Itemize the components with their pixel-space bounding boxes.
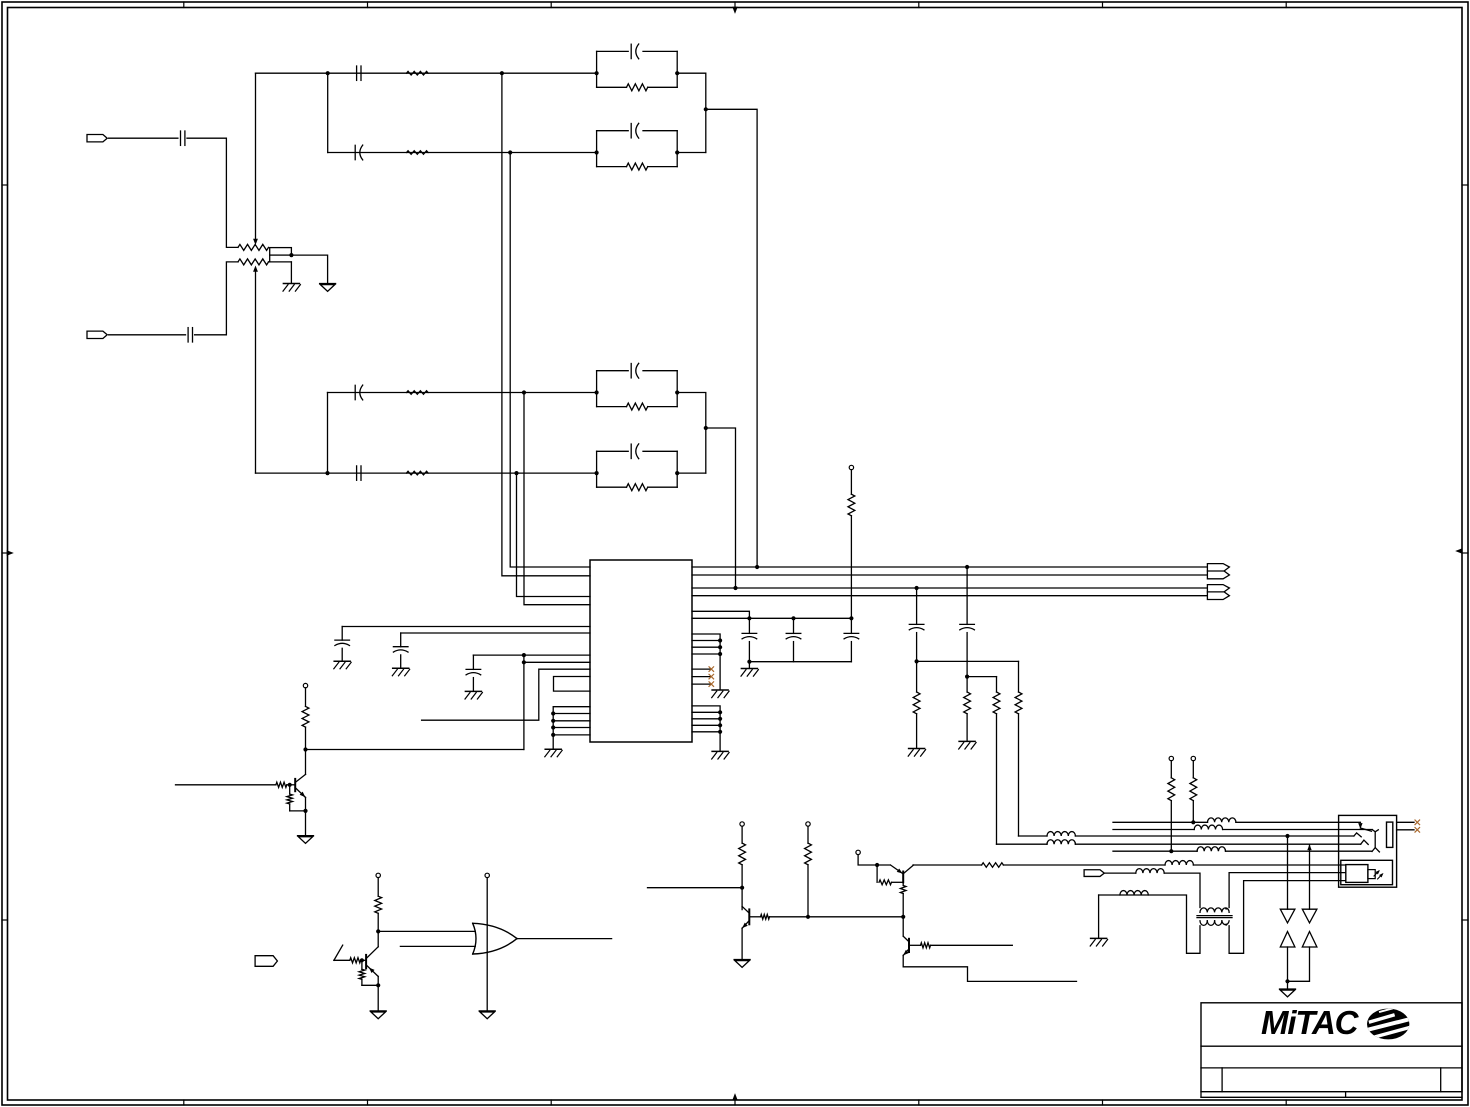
resistor R18 [350, 958, 361, 963]
junction dot [522, 653, 526, 657]
MITAC logo text [1261, 1004, 1360, 1041]
junction dot [551, 711, 555, 715]
power pin [740, 822, 744, 826]
resistor R20 [739, 843, 746, 865]
wire pin [692, 640, 720, 642]
polarity dot [1225, 924, 1227, 926]
wire net L1 [502, 73, 590, 576]
wire [749, 916, 760, 918]
wire net L4 [517, 473, 591, 596]
sheet centre arrow top [733, 7, 738, 13]
transformer T1 primary [1200, 908, 1229, 913]
power pin [485, 873, 489, 877]
junction dot [1169, 849, 1173, 853]
no-connect x [709, 674, 714, 679]
opto box [1341, 860, 1393, 884]
RC feedback block C frame [597, 371, 678, 407]
wire [677, 393, 706, 474]
no-connect x [1415, 820, 1420, 825]
transistor Q2 [366, 947, 378, 977]
wire [327, 393, 329, 474]
transformer T1 core [1197, 916, 1232, 918]
ground (signal) [1280, 989, 1296, 997]
junction dot [718, 645, 722, 649]
capacitor C7 [631, 44, 639, 59]
wire [1164, 873, 1200, 907]
opto body [1346, 865, 1368, 883]
potentiometer VR1a element [238, 244, 269, 250]
wire through gate [486, 878, 488, 1011]
resistor R8 [627, 484, 648, 491]
wire [1308, 845, 1312, 909]
ground (signal) [370, 1011, 386, 1019]
connector J5 (control input) [255, 956, 277, 967]
bus entry slash [334, 945, 343, 960]
wire [377, 976, 379, 1010]
capacitor C2 [188, 328, 192, 342]
resistor R9 [848, 494, 855, 516]
resistor R11 [964, 677, 971, 742]
wire gate input B [400, 945, 475, 947]
capacitor C14 [742, 618, 757, 661]
resistor R26 [921, 943, 931, 948]
wire nc stub [1397, 829, 1414, 831]
wire [552, 735, 554, 749]
wire [1223, 829, 1373, 831]
inductor L1 [1208, 818, 1236, 822]
junction dot [747, 660, 751, 664]
power pin [806, 822, 810, 826]
wire base net [176, 784, 276, 786]
capacitor C18 [960, 567, 975, 661]
wire pin [553, 707, 590, 735]
wire [850, 470, 852, 495]
inductor L3 [1047, 832, 1075, 836]
sheet centre arrow right [1456, 549, 1462, 554]
wire [287, 784, 295, 786]
wire pin [692, 724, 720, 726]
wire loop pins [554, 677, 591, 692]
resistor R17 [375, 896, 382, 913]
wire [648, 887, 743, 889]
junction dot [514, 471, 518, 475]
wire [109, 137, 178, 139]
ground (chassis) [741, 669, 758, 677]
ground (chassis) [392, 668, 409, 676]
wire row1 [256, 72, 597, 74]
wire [966, 661, 968, 676]
junction dot [1191, 820, 1195, 824]
junction dot [740, 886, 744, 890]
polarity dot [1225, 907, 1227, 909]
junction dot [1285, 834, 1289, 838]
diode D2 [1280, 932, 1295, 948]
wire [290, 810, 306, 812]
wire W5 [1113, 850, 1197, 852]
wire cap rail [692, 617, 851, 619]
wire [377, 913, 379, 947]
title block divider [1221, 1068, 1223, 1092]
wire out2 [692, 574, 1207, 576]
opto light arrows [1374, 871, 1383, 879]
wire [1170, 761, 1172, 778]
wire [290, 262, 292, 283]
headphone jack J7 body [1339, 815, 1397, 887]
junction dot [901, 915, 905, 919]
junction dot [806, 915, 810, 919]
resistor R25 [982, 863, 1004, 867]
title block divider [1440, 1068, 1442, 1092]
resistor R4 [407, 471, 429, 475]
power pin [856, 850, 860, 854]
junction dot [376, 929, 380, 933]
junction dot [326, 71, 330, 75]
power pin [1191, 756, 1195, 760]
diode D3 [1302, 909, 1317, 923]
wire pin [553, 720, 590, 722]
junction dot [289, 253, 293, 257]
wire pin [553, 734, 590, 736]
wire [1075, 835, 1354, 837]
wire [1236, 821, 1361, 823]
wire [741, 928, 743, 959]
wire out4 [692, 595, 1207, 597]
potentiometer body box [270, 248, 292, 256]
wire [1288, 947, 1310, 981]
wire pin [692, 718, 720, 720]
wire W1 [1113, 821, 1208, 823]
resistor R16 [287, 785, 293, 811]
junction dot [360, 958, 364, 962]
junction dot [875, 863, 879, 867]
junction dot [303, 809, 307, 813]
resistor R15 [276, 782, 287, 787]
junction dot [551, 725, 555, 729]
junction dot [718, 638, 722, 642]
junction dot [747, 616, 751, 620]
capacitor C3 [357, 66, 361, 80]
wire W6 [1003, 864, 1165, 866]
inductor L6 [1165, 861, 1193, 865]
junction dot [704, 107, 708, 111]
wire gate input A [378, 930, 475, 932]
wire [902, 882, 904, 885]
junction dot [288, 783, 292, 787]
jack switch Y [1372, 830, 1379, 852]
ground (chassis) [712, 751, 729, 759]
junction dot [965, 675, 969, 679]
resistor R23 [879, 880, 892, 885]
wire rail [917, 660, 1019, 662]
title block line [1201, 1045, 1462, 1047]
resistor R13 [993, 677, 1000, 845]
wire [1287, 836, 1289, 909]
wire [305, 688, 307, 707]
capacitor C5 [355, 385, 363, 400]
ground (signal) [298, 836, 314, 844]
junction dot [675, 71, 679, 75]
wire Q4 out [913, 864, 982, 866]
ground (chassis) [465, 691, 482, 699]
capacitor C15 [786, 618, 801, 661]
inductor L4 [1047, 840, 1075, 844]
wire out3 [692, 587, 1207, 589]
connector J2 (audio input 2) [87, 331, 107, 338]
wire net L2 [510, 153, 590, 568]
wire [195, 262, 238, 335]
junction dot [965, 565, 969, 569]
junction dot [595, 390, 599, 394]
sheet centre arrow left [7, 551, 13, 556]
wire [361, 959, 366, 961]
wire [1170, 801, 1172, 852]
junction dot [325, 471, 329, 475]
opto emitter notch [1368, 870, 1375, 879]
wire [748, 662, 750, 669]
wire [401, 632, 590, 634]
junction dot [551, 733, 555, 737]
op-amp / DAC IC U1 [590, 560, 692, 742]
wire [741, 826, 743, 843]
wire [892, 881, 904, 883]
wire [524, 661, 590, 663]
wire pin [692, 634, 720, 690]
junction dot [522, 660, 526, 664]
capacitor C16 [844, 618, 859, 661]
junction dot [755, 565, 759, 569]
junction dot [303, 747, 307, 751]
wire [342, 626, 590, 628]
wire W4 [997, 843, 1048, 845]
wire [858, 855, 890, 865]
wire pin [553, 713, 590, 715]
RC feedback block B frame [597, 131, 678, 167]
wire [677, 472, 706, 474]
wire [741, 865, 743, 910]
wire [187, 138, 238, 247]
resistor R7 [627, 403, 648, 410]
wire [967, 676, 996, 678]
ground (signal) [479, 1011, 495, 1019]
junction dot [376, 983, 380, 987]
junction dot [915, 659, 919, 663]
transistor Q1 [295, 774, 305, 797]
inductor L2 [1194, 825, 1222, 829]
RC feedback block D frame [597, 451, 678, 487]
wire bottom rail [749, 661, 851, 663]
connector J4 (output pair B) [1207, 585, 1229, 600]
wire [876, 865, 878, 882]
junction dot [508, 150, 512, 154]
wire T1 bottom-left [1099, 895, 1200, 953]
inductor L5 [1197, 847, 1225, 851]
power pin [303, 683, 307, 687]
wire [327, 73, 329, 152]
junction dot [704, 426, 708, 430]
wire [523, 655, 525, 749]
junction dot [675, 390, 679, 394]
capacitor C4 [355, 145, 363, 160]
power pin [1169, 756, 1173, 760]
jack tip contact [1359, 823, 1372, 831]
resistor R28 [1190, 778, 1197, 801]
wire [1098, 895, 1100, 938]
wire [850, 516, 852, 619]
junction dot [675, 150, 679, 154]
wire out1 [692, 566, 1207, 568]
resistor R14 [302, 706, 309, 727]
wire [1226, 850, 1373, 852]
ground (chassis) [545, 749, 562, 757]
wire [334, 959, 350, 961]
capacitor C6 [357, 466, 361, 480]
wire pin 611 [692, 611, 749, 618]
resistor R3 [407, 391, 429, 395]
ground (chassis) [1090, 938, 1107, 946]
ground (chassis) [959, 741, 976, 749]
wire nc pin [692, 668, 711, 670]
wire [1075, 843, 1360, 845]
junction dot [675, 471, 679, 475]
capacitor C11 [335, 627, 350, 662]
wire [109, 334, 186, 336]
junction dot [551, 719, 555, 723]
junction dot [718, 730, 722, 734]
wire [305, 727, 307, 774]
ground (chassis) [283, 284, 300, 292]
wire row3 [328, 392, 597, 394]
wire nc pin [692, 676, 711, 678]
wire T1 top-right [1229, 873, 1346, 908]
resistor R19 [359, 960, 365, 985]
connector J6 (mic input) [1084, 870, 1104, 877]
wire [902, 894, 904, 937]
wire [807, 826, 809, 843]
wire W2 [1113, 829, 1194, 831]
wire [291, 255, 327, 283]
wire net L3 [524, 393, 590, 605]
wire [269, 261, 292, 263]
resistor R10 [913, 661, 920, 748]
ground (signal) [320, 284, 336, 292]
capacitor C13 [466, 655, 481, 691]
jack contact chevron 1 [1354, 833, 1361, 837]
junction dot [733, 586, 737, 590]
junction dot [718, 717, 722, 721]
RC feedback block A frame [597, 51, 678, 87]
jack contact chevron 2 [1361, 840, 1369, 844]
junction dot [595, 150, 599, 154]
junction dot [522, 390, 526, 394]
wire [1192, 761, 1194, 778]
wiper wire upper [254, 73, 258, 244]
wire [770, 916, 904, 918]
junction dot [718, 710, 722, 714]
inductor L7 [1136, 869, 1164, 873]
MITAC logo globe [1366, 1009, 1409, 1040]
wire pin [692, 731, 720, 733]
wire pin [692, 653, 720, 655]
junction dot [718, 723, 722, 727]
wire net to Q1 [306, 749, 524, 751]
wire [362, 984, 378, 986]
ground (chassis) [712, 690, 729, 698]
wire nc pin [692, 683, 711, 685]
capacitor C10 [631, 444, 639, 459]
wire [807, 865, 809, 917]
sheet centre arrow bottom [733, 1094, 738, 1100]
wire nc stub [1397, 821, 1414, 823]
diode D1 [1280, 909, 1295, 923]
wire [677, 73, 706, 152]
power pin [849, 465, 853, 469]
capacitor C9 [631, 363, 639, 378]
junction dot [500, 71, 504, 75]
junction dot [791, 616, 795, 620]
junction dot [595, 471, 599, 475]
resistor R12 [1015, 661, 1022, 836]
wire [1193, 864, 1345, 866]
wire [903, 955, 1076, 981]
wire T1 bottom-right [1229, 881, 1346, 954]
wire row4 [256, 472, 597, 474]
wire gate output [517, 938, 612, 940]
capacitor C17 [909, 588, 924, 661]
wire [909, 944, 921, 946]
wire pin [692, 711, 720, 713]
jack sleeve [1387, 822, 1393, 847]
wire [1287, 947, 1289, 989]
transistor Q3 [742, 906, 749, 928]
wire [677, 152, 706, 154]
resistor R5 [627, 84, 648, 91]
wire pin [692, 646, 720, 648]
wire pin [553, 727, 590, 729]
title block bottom strip [1201, 1092, 1462, 1098]
transistor Q5 [903, 936, 909, 955]
wire [1104, 872, 1136, 874]
resistor R27 [1168, 778, 1175, 801]
transformer T1 secondary [1200, 921, 1229, 926]
wire [377, 878, 379, 897]
resistor R1 [407, 71, 429, 75]
wire stub [422, 669, 590, 720]
wire W3 [1019, 835, 1048, 837]
junction dot [915, 586, 919, 590]
wire [269, 255, 271, 262]
wire [473, 654, 524, 656]
resistor R6 [627, 163, 648, 170]
title block frame [1201, 1003, 1462, 1092]
resistor R22 [805, 843, 812, 865]
resistor R21 [761, 914, 770, 919]
junction dot [595, 71, 599, 75]
power pin [376, 873, 380, 877]
transistor Q4 (pnp) [891, 865, 914, 882]
inductor L8 [1120, 891, 1148, 895]
wire [524, 654, 590, 656]
wire [1192, 801, 1194, 823]
wire [931, 944, 1013, 946]
capacitor C8 [631, 123, 639, 138]
wire [706, 428, 736, 588]
junction dot [849, 616, 853, 620]
wire row2 [328, 152, 597, 154]
junction dot [1285, 979, 1289, 983]
svg-text:MiTAC: MiTAC [1261, 1004, 1360, 1041]
connector J1 (audio input 1) [87, 135, 107, 142]
title block line [1201, 1067, 1462, 1069]
